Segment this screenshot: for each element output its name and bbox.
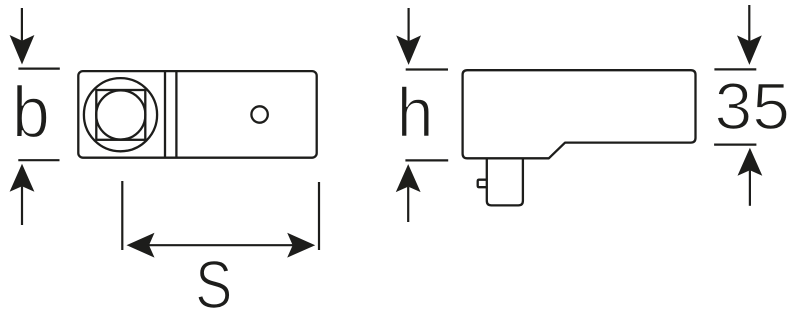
- dimension 35 upper arrowhead: [737, 35, 762, 65]
- divider line 1: [164, 71, 166, 158]
- dimension b upper tick: [18, 67, 59, 69]
- svg-text:h: h: [397, 74, 434, 152]
- dimension h upper tick: [406, 68, 448, 70]
- square drive shank (side view): [487, 158, 523, 205]
- dimension S arrow line: [148, 244, 294, 246]
- dimension b lower arrow shaft: [21, 186, 23, 225]
- dimension b upper arrow shaft: [21, 8, 23, 41]
- dimension 35 upper arrow shaft: [748, 5, 750, 41]
- divider line 2: [175, 71, 177, 158]
- collar circle: [84, 78, 157, 151]
- dimension h upper arrowhead: [396, 35, 421, 65]
- svg-text:35: 35: [715, 70, 791, 144]
- dimension 35 lower arrowhead: [738, 148, 763, 176]
- square drive hole: [96, 90, 145, 140]
- dimension h lower tick: [405, 159, 448, 161]
- insert tool body outline (side view): [463, 70, 696, 158]
- svg-text:b: b: [12, 72, 50, 153]
- dimension b lower tick: [18, 159, 59, 161]
- dimension 35 lower tick: [714, 144, 756, 146]
- dimension h lower arrowhead: [396, 164, 421, 192]
- insert tool body outline (top view): [78, 71, 316, 158]
- dimension S extension line right: [318, 182, 320, 250]
- inscribed circle of square drive: [96, 90, 145, 139]
- detent pin: [478, 180, 487, 188]
- dimension S left arrowhead: [127, 233, 155, 258]
- svg-text:S: S: [195, 248, 232, 319]
- dimension 35 lower arrow shaft: [749, 170, 751, 206]
- dimension S extension line left: [121, 181, 123, 250]
- dimension 35 upper tick: [714, 68, 756, 70]
- pin hole: [251, 106, 267, 122]
- dimension b lower arrowhead: [10, 164, 35, 192]
- dimension h upper arrow shaft: [408, 8, 410, 41]
- dimension S right arrowhead: [287, 233, 315, 258]
- dimension b upper arrowhead: [10, 35, 35, 65]
- dimension h lower arrow shaft: [407, 187, 409, 222]
